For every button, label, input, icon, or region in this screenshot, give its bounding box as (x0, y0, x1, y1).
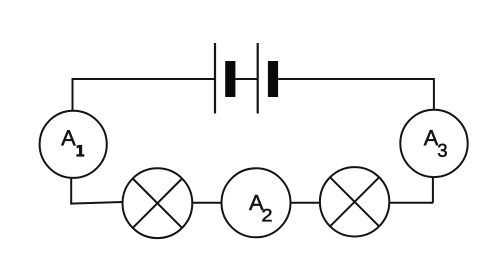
battery cell 1 long plate (214, 43, 216, 114)
battery cell 2 short plate (268, 61, 278, 97)
label A2 letter A (249, 195, 263, 210)
wire A2 to lamp2 (291, 202, 320, 204)
label A3 letter A (424, 130, 438, 145)
wire lamp2 to right corner (389, 202, 433, 204)
battery cell 2 long plate (257, 43, 259, 114)
label A3 subscript 3 (438, 144, 447, 157)
wire A3 bottom vertical (432, 177, 434, 203)
ammeter A1 (40, 111, 107, 178)
label A2 subscript 2 (262, 209, 271, 222)
ammeter A2 (222, 168, 291, 237)
battery cell 1 short plate (225, 61, 235, 97)
lamp L1 (122, 168, 192, 238)
wire left vertical (top corner to A1) (72, 78, 74, 111)
lamp L2 (320, 167, 389, 236)
wire right vertical (corner to A3) (433, 78, 435, 110)
label A1 subscript 1 (77, 145, 84, 156)
label A1 letter A (61, 130, 75, 145)
wire A1 bottom vertical (70, 178, 72, 204)
wire between battery cells (235, 78, 257, 80)
ammeter A3 (400, 110, 467, 177)
wire top-right horizontal (278, 78, 434, 80)
wire bottom-left horizontal (70, 202, 122, 204)
wire top-left horizontal (72, 78, 214, 80)
wire lamp1 to A2 (192, 202, 221, 204)
